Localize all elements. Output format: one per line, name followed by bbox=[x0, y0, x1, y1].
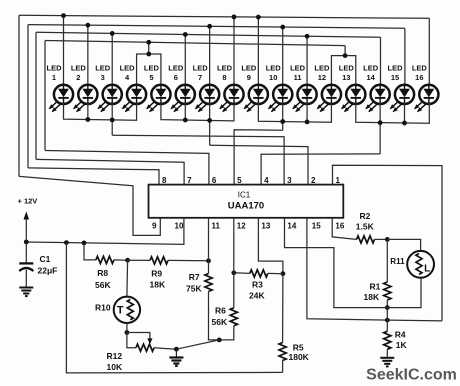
svg-text:7: 7 bbox=[198, 73, 202, 82]
wire anode drop to LED 1 bbox=[63, 16, 65, 86]
wire LED11 cathode bbox=[306, 103, 308, 122]
wire anode drop to LED 16 (bus1 right end) bbox=[428, 18, 430, 86]
node junction on bus at LED 10 bbox=[280, 25, 285, 30]
svg-text:7: 7 bbox=[187, 176, 192, 185]
svg-text:75K: 75K bbox=[186, 284, 202, 294]
wire R8 left lead bbox=[84, 243, 96, 260]
svg-text:18K: 18K bbox=[364, 292, 380, 302]
svg-text:R2: R2 bbox=[360, 211, 371, 221]
svg-text:LED: LED bbox=[217, 63, 233, 72]
svg-text:8: 8 bbox=[162, 176, 167, 185]
node junction bus C LED11 bbox=[305, 120, 310, 125]
wire anode drop to LED 7 bbox=[209, 26, 211, 85]
wire R3 left lead bbox=[234, 272, 250, 275]
svg-text:3: 3 bbox=[101, 73, 105, 82]
svg-text:LED: LED bbox=[363, 63, 379, 72]
wire R2 to junction bbox=[375, 238, 388, 240]
resistor R12 zigzag bbox=[136, 344, 154, 351]
wire bracket center tap to bus 4 bbox=[148, 42, 150, 54]
wire R10 top lead bbox=[126, 260, 129, 296]
node junction R8/R9/R10 bbox=[125, 258, 130, 263]
svg-text:R7: R7 bbox=[189, 272, 200, 282]
wire bus 4 to pin 6 bbox=[45, 151, 209, 185]
node junction on bus at LED 1 bbox=[61, 13, 66, 18]
svg-text:56K: 56K bbox=[212, 317, 228, 327]
svg-text:16: 16 bbox=[415, 73, 423, 82]
wire LED15 cathode bbox=[403, 103, 405, 123]
svg-text:1K: 1K bbox=[396, 340, 408, 350]
wire bus 3 to pin 7 bbox=[36, 159, 184, 184]
svg-text:15: 15 bbox=[391, 73, 399, 82]
svg-text:LED: LED bbox=[387, 63, 403, 72]
svg-text:13: 13 bbox=[342, 73, 350, 82]
wire anode bus 4 left drop bbox=[44, 41, 46, 151]
svg-text:L: L bbox=[424, 263, 430, 274]
wire pin 1 up and right side down bbox=[333, 165, 443, 321]
svg-text:R4: R4 bbox=[395, 330, 406, 340]
svg-text:LED: LED bbox=[290, 63, 306, 72]
node junction R9/R7/pin11 bbox=[206, 258, 211, 263]
wire pin 13 jog to R3 right node bbox=[258, 218, 283, 274]
svg-text:10: 10 bbox=[175, 222, 184, 231]
svg-text:T: T bbox=[117, 304, 124, 316]
svg-text:LED: LED bbox=[47, 63, 63, 72]
supply +12V arrow bbox=[24, 212, 30, 243]
node junction R1 bottom bbox=[385, 305, 390, 310]
node junction ground bbox=[174, 347, 179, 352]
op-amp IC1 UAA170 body bbox=[149, 185, 344, 218]
resistor R8 zigzag bbox=[96, 256, 114, 263]
wire R8 right lead bbox=[114, 259, 128, 261]
lamp R11 symbol bbox=[407, 251, 434, 278]
svg-text:5: 5 bbox=[237, 176, 242, 185]
svg-text:12: 12 bbox=[237, 222, 246, 231]
LED 15 diode symbol bbox=[390, 85, 415, 113]
wire junction to lamp top bbox=[387, 239, 420, 251]
node junction R2 right bbox=[385, 237, 390, 242]
wire anode bus 1 left drop bbox=[18, 15, 20, 176]
node junction bus B LED6 bbox=[183, 118, 188, 123]
wire anode drop to LED 2 bbox=[87, 25, 89, 86]
wire R2 junction down to R1 bbox=[386, 239, 388, 282]
svg-text:LED: LED bbox=[266, 63, 282, 72]
svg-text:11: 11 bbox=[212, 222, 221, 231]
resistor R4 zigzag bbox=[384, 331, 391, 349]
svg-text:SeekIC.com: SeekIC.com bbox=[366, 366, 457, 383]
wire cathode bus A (LEDs 1-4) bbox=[64, 103, 137, 120]
node junction rail bottom-rail drop bbox=[64, 240, 69, 245]
capacitor C1 plates bbox=[19, 263, 33, 271]
wire anode bracket LED4-LED5 bbox=[137, 54, 161, 86]
svg-text:C1: C1 bbox=[40, 254, 51, 264]
svg-text:+ 12V: + 12V bbox=[18, 196, 38, 205]
LED 9 diode symbol bbox=[243, 85, 268, 113]
wire bus D to pin 4 bbox=[261, 154, 380, 185]
resistor R9 zigzag bbox=[150, 257, 168, 264]
svg-text:LED: LED bbox=[314, 63, 330, 72]
svg-text:R1: R1 bbox=[370, 282, 381, 292]
node junction bus D LED15 bbox=[402, 121, 407, 126]
wire R7 top lead bbox=[208, 261, 210, 274]
svg-text:8: 8 bbox=[222, 73, 226, 82]
wire bus 2 to pin 8 bbox=[28, 168, 159, 185]
wire +12V rail to pin 10 bbox=[26, 218, 184, 245]
svg-text:R3: R3 bbox=[252, 280, 263, 290]
svg-text:5: 5 bbox=[149, 73, 153, 82]
wire R6 bottom to R7 bottom bbox=[208, 326, 234, 340]
resistor R2 zigzag bbox=[357, 236, 375, 243]
node junction on bus at LED 11 bbox=[305, 34, 310, 39]
wire R12 wiper bbox=[127, 333, 150, 340]
wire cathode bus D (LEDs 13-16) bbox=[356, 103, 430, 123]
svg-text:2: 2 bbox=[76, 73, 80, 82]
wire C1 top lead bbox=[25, 242, 27, 263]
node junction on bus at LED 7 bbox=[207, 24, 212, 29]
wire pin 11 down to R7 bbox=[208, 218, 210, 261]
wire bus 1 to pin 9 bbox=[19, 176, 160, 235]
wire R5 top lead bbox=[282, 274, 284, 343]
LED 5 diode symbol bbox=[146, 85, 171, 113]
LED 1 diode symbol bbox=[49, 85, 74, 113]
LED 14 diode symbol bbox=[365, 85, 390, 113]
wire anode bus 3 left drop bbox=[35, 32, 37, 159]
wire anode bus 3 (LEDs 3,6,11,14) bbox=[36, 32, 381, 37]
wire anode drop to LED 3 bbox=[111, 33, 113, 85]
svg-text:3: 3 bbox=[287, 176, 292, 185]
svg-text:R10: R10 bbox=[95, 303, 111, 313]
svg-text:11: 11 bbox=[294, 73, 302, 82]
wire anode bus 1 (LEDs 1,8,9,16) bbox=[19, 15, 429, 18]
wire bottom rail bbox=[66, 243, 282, 373]
wire cathode bus C (LEDs 9-12) bbox=[258, 103, 331, 122]
wire anode drop to LED 8 bbox=[233, 17, 235, 86]
thermistor R10 symbol bbox=[114, 297, 140, 323]
svg-text:LED: LED bbox=[193, 63, 209, 72]
wire pin 14 to lamp bottom bbox=[285, 218, 422, 308]
svg-text:12: 12 bbox=[318, 73, 326, 82]
node junction R3 right bbox=[281, 271, 286, 276]
svg-text:UAA170: UAA170 bbox=[228, 201, 264, 212]
node junction R6/R7 bottom bbox=[217, 338, 222, 343]
wire anode drop to LED 14 (bus3 right end) bbox=[380, 37, 382, 86]
svg-text:LED: LED bbox=[168, 63, 184, 72]
svg-text:15: 15 bbox=[312, 222, 321, 231]
wire pin 16 to R2 bbox=[332, 218, 356, 240]
wire cathode bus B (LEDs 5-8) bbox=[161, 103, 234, 121]
svg-text:1: 1 bbox=[52, 73, 56, 82]
LED 2 diode symbol bbox=[73, 85, 98, 113]
svg-text:LED: LED bbox=[241, 63, 257, 72]
wire LED14 cathode and tap bbox=[379, 103, 381, 154]
LED 16 diode symbol bbox=[414, 85, 439, 113]
wire anode drop to LED 6 bbox=[184, 34, 186, 85]
wire LED7 cathode and tap bbox=[209, 103, 211, 145]
svg-text:R6: R6 bbox=[215, 306, 226, 316]
node junction bracket LED12-13 bbox=[343, 53, 348, 58]
node junction on bus 4 bbox=[146, 40, 151, 45]
node junction on bus at LED 9 bbox=[256, 15, 261, 20]
wire anode bus 2 left drop bbox=[27, 25, 29, 168]
wire R9 left lead bbox=[128, 259, 150, 261]
wire node line pin15 to pin1 bbox=[307, 218, 442, 321]
wire LED10 cathode and tap bbox=[282, 103, 284, 130]
svg-text:R9: R9 bbox=[151, 268, 162, 278]
svg-text:1.5K: 1.5K bbox=[356, 222, 375, 232]
node junction bus D LED14 bbox=[378, 120, 383, 125]
svg-text:1: 1 bbox=[336, 176, 341, 185]
R12 wiper arrowhead bbox=[147, 338, 152, 344]
ground under R4 bbox=[380, 358, 394, 367]
node junction bus B LED7 bbox=[207, 118, 212, 123]
LED 10 diode symbol bbox=[268, 85, 293, 113]
svg-text:180K: 180K bbox=[289, 352, 310, 362]
wire C1 bottom lead bbox=[25, 270, 27, 288]
svg-text:R12: R12 bbox=[107, 351, 123, 361]
svg-text:LED: LED bbox=[412, 63, 428, 72]
LED 13 diode symbol bbox=[341, 85, 366, 113]
node junction R4 top bbox=[385, 318, 390, 323]
wire pin 12 down through R3 node to R6 bbox=[233, 218, 235, 308]
ground under C1 bbox=[19, 288, 33, 297]
svg-text:IC1: IC1 bbox=[238, 191, 251, 200]
wire R3 right lead bbox=[268, 272, 283, 274]
svg-text:LED: LED bbox=[339, 63, 355, 72]
svg-text:10K: 10K bbox=[107, 362, 123, 372]
svg-text:4: 4 bbox=[125, 73, 130, 82]
wire LED2 cathode bbox=[87, 103, 89, 120]
resistor R7 zigzag bbox=[205, 274, 212, 292]
wire R9 right lead bbox=[168, 259, 209, 261]
svg-text:14: 14 bbox=[366, 73, 375, 82]
svg-text:14: 14 bbox=[287, 222, 296, 231]
node junction on bus at LED 8 bbox=[232, 14, 237, 19]
LED 4 diode symbol bbox=[122, 85, 147, 113]
svg-text:LED: LED bbox=[144, 63, 160, 72]
wire R1 bottom bbox=[386, 300, 388, 308]
node junction on bus at LED 2 bbox=[85, 23, 90, 28]
svg-text:2: 2 bbox=[311, 176, 316, 185]
svg-text:LED: LED bbox=[120, 63, 136, 72]
wire R10 bottom lead bbox=[126, 323, 128, 333]
ground under R12 bbox=[169, 349, 183, 366]
wire R4 top lead bbox=[386, 320, 388, 331]
node junction bracket LED4-5 bbox=[146, 52, 151, 57]
wire LED3 cathode and tap bbox=[111, 103, 113, 135]
resistor R5 zigzag bbox=[279, 343, 286, 361]
wire anode drop to LED 9 bbox=[257, 17, 259, 86]
svg-text:56K: 56K bbox=[95, 280, 111, 290]
wire anode bus 4 (LEDs 4,5,12,13) bbox=[45, 41, 345, 46]
LED 3 diode symbol bbox=[97, 85, 122, 113]
LED 8 diode symbol bbox=[219, 85, 244, 113]
wire anode bracket LED12-LED13 bbox=[331, 56, 355, 86]
svg-text:9: 9 bbox=[247, 73, 251, 82]
wire R12 right lead bbox=[154, 348, 176, 350]
node junction +12V/C1 bbox=[24, 240, 29, 245]
node junction bus C LED10 bbox=[280, 119, 285, 124]
node junction R10 bottom bbox=[125, 330, 130, 335]
resistor R1 zigzag bbox=[384, 282, 391, 300]
wire bus C to pin 5 bbox=[234, 130, 283, 185]
node junction rail R8 drop bbox=[82, 241, 87, 246]
svg-text:LED: LED bbox=[71, 63, 87, 72]
wire LED6 cathode bbox=[184, 103, 186, 120]
LED 12 diode symbol bbox=[317, 85, 342, 113]
LED 11 diode symbol bbox=[292, 85, 317, 113]
svg-text:16: 16 bbox=[335, 222, 344, 231]
resistor R6 zigzag bbox=[230, 308, 237, 326]
wire anode bus 2 (LEDs 2,7,10,15) bbox=[28, 25, 405, 29]
wire bus A to pin 3 bbox=[112, 135, 284, 184]
wire R7 bottom lead bbox=[208, 292, 210, 340]
wire R12 left lead bbox=[127, 333, 136, 348]
node junction bus A LED2 bbox=[85, 117, 90, 122]
svg-text:R11: R11 bbox=[390, 257, 405, 266]
svg-text:22μF: 22μF bbox=[38, 266, 58, 276]
node junction on bus at LED 3 bbox=[110, 31, 115, 36]
wire anode drop to LED 11 bbox=[306, 36, 308, 86]
svg-text:13: 13 bbox=[261, 222, 270, 231]
node junction pin12/R3/R6 bbox=[231, 270, 236, 275]
LED 6 diode symbol bbox=[170, 85, 195, 113]
wire bracket center tap to bus 4 right end bbox=[344, 46, 346, 56]
svg-text:24K: 24K bbox=[249, 291, 265, 301]
wire R4 bottom lead bbox=[386, 349, 388, 358]
wire R5 bottom lead bbox=[282, 361, 284, 373]
svg-text:R8: R8 bbox=[97, 268, 108, 278]
svg-text:6: 6 bbox=[212, 176, 217, 185]
wire R1 bottom junction to node line bbox=[386, 308, 388, 321]
resistor R3 zigzag bbox=[250, 270, 268, 277]
LED 7 diode symbol bbox=[195, 85, 220, 113]
svg-text:18K: 18K bbox=[150, 279, 166, 289]
svg-text:6: 6 bbox=[174, 73, 178, 82]
svg-text:4: 4 bbox=[264, 176, 269, 185]
wire bus B to pin 2 bbox=[210, 145, 308, 184]
svg-text:10: 10 bbox=[269, 73, 277, 82]
node junction bus A LED3 bbox=[110, 118, 115, 123]
wire slant to ground node bbox=[176, 340, 219, 349]
node junction on bus at LED 6 bbox=[183, 32, 188, 37]
wire anode drop to LED 10 bbox=[282, 27, 284, 86]
svg-text:9: 9 bbox=[152, 222, 157, 231]
wire anode drop to LED 15 (bus2 right end) bbox=[404, 28, 406, 86]
svg-text:LED: LED bbox=[95, 63, 111, 72]
